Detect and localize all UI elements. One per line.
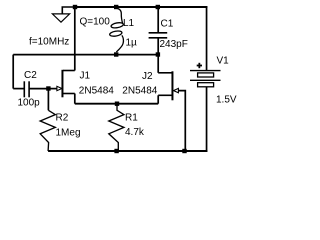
ground [52,14,69,22]
wire battery top lead [206,6,208,70]
node junction L1 bottom [114,52,118,56]
svg-text:L1: L1 [123,18,135,29]
svg-text:C1: C1 [161,19,174,30]
top rail wire [74,6,207,8]
wire R2 top lead [47,89,49,111]
wire left branch vertical [12,55,14,89]
svg-text:1.5V: 1.5V [216,95,237,106]
node junction R1 bottom [114,149,118,153]
resistor R2 [40,110,55,151]
capacitor C2 [24,81,29,97]
svg-text:2N5484: 2N5484 [79,86,114,97]
wire J2 drain vertical [157,55,159,73]
svg-text:C2: C2 [24,70,37,81]
node junction L1 top [114,5,118,9]
battery plus sign [197,63,202,68]
svg-text:Q=100: Q=100 [80,16,111,27]
node junction J2 gate bottom [182,149,186,153]
wire source rail [75,103,158,105]
wire J2 gate lead [178,91,185,151]
node junction C1 top [156,5,160,9]
wire battery bottom lead [206,87,208,152]
svg-text:243pF: 243pF [160,39,188,50]
wire J1 source vertical [74,94,76,104]
ground stub wire [62,7,75,14]
transistor J2 [158,71,178,100]
svg-text:2N5484: 2N5484 [122,85,157,96]
wire C1 bottom lead [157,38,159,55]
battery V1 [190,71,221,87]
wire C2 left lead [13,88,24,90]
wire mid horizontal (tank) [13,54,158,56]
resistor R1 [109,104,124,151]
inductor L1 [109,8,123,52]
svg-text:4.7k: 4.7k [125,127,145,138]
svg-text:J1: J1 [80,71,91,82]
svg-text:J2: J2 [142,71,153,82]
svg-text:100p: 100p [18,97,41,108]
svg-text:V1: V1 [217,55,230,66]
svg-text:1µ: 1µ [126,38,138,49]
wire C2 right lead [30,88,49,90]
node junction R1 top [115,102,119,106]
node junction C1 bottom [156,52,160,56]
svg-text:1Meg: 1Meg [56,128,81,139]
wire J1 gate lead [48,88,57,90]
transistor J1 [57,70,75,98]
wire J2 source vertical [157,95,159,103]
svg-text:R2: R2 [56,113,69,124]
node junction gate J1 [46,86,50,90]
svg-text:f=10MHz: f=10MHz [29,36,69,47]
node junction top-left [73,5,77,9]
wire C1 top lead [157,7,159,33]
wire bottom rail [48,150,207,152]
capacitor C1 [149,33,168,38]
svg-text:R1: R1 [125,113,138,124]
wire J1 drain vertical [74,7,76,71]
